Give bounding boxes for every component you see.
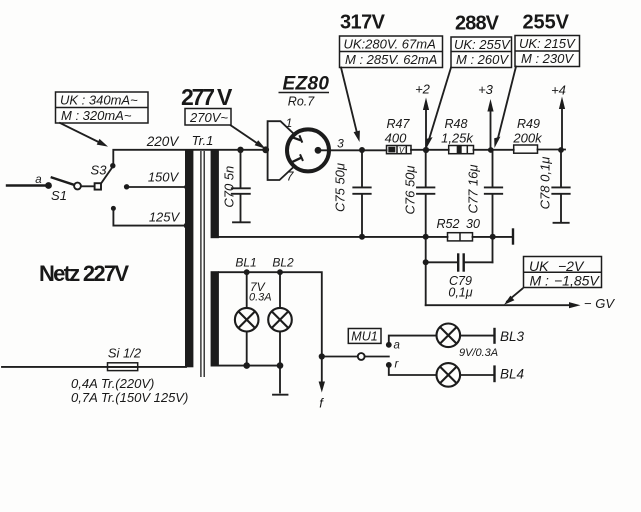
svg-text:M : 285V. 62mA: M : 285V. 62mA: [345, 52, 437, 67]
svg-text:C76 50μ: C76 50μ: [403, 165, 418, 214]
svg-text:R52: R52: [437, 217, 460, 231]
svg-text:−2V: −2V: [558, 258, 585, 274]
svg-text:Ro.7: Ro.7: [288, 95, 315, 109]
svg-text:270V~: 270V~: [189, 110, 228, 125]
svg-text:UK: 255V: UK: 255V: [454, 37, 511, 52]
svg-text:1,25k: 1,25k: [441, 131, 474, 146]
svg-text:M : 320mA~: M : 320mA~: [61, 108, 132, 123]
svg-text:− GV: − GV: [584, 296, 615, 311]
svg-text:+4: +4: [551, 83, 566, 98]
svg-text:Tr.1: Tr.1: [192, 133, 214, 148]
svg-text:255V: 255V: [523, 12, 570, 34]
svg-text:M :: M :: [530, 273, 550, 289]
svg-text:277: 277: [181, 84, 215, 110]
svg-text:220V: 220V: [146, 134, 181, 149]
svg-text:V: V: [399, 146, 405, 155]
svg-text:C78 0,1μ: C78 0,1μ: [538, 157, 553, 210]
svg-text:317V: 317V: [340, 12, 386, 34]
svg-text:R49: R49: [517, 117, 540, 131]
svg-text:a: a: [394, 340, 400, 352]
svg-text:UK: 215V: UK: 215V: [519, 36, 576, 51]
svg-text:400: 400: [385, 131, 407, 146]
svg-text:BL2: BL2: [272, 256, 294, 270]
svg-text:BL4: BL4: [500, 367, 524, 382]
svg-text:9V/0.3A: 9V/0.3A: [459, 347, 498, 359]
svg-text:BL3: BL3: [500, 329, 525, 344]
svg-text:BL1: BL1: [235, 256, 256, 270]
svg-text:C70 5n: C70 5n: [222, 166, 237, 208]
svg-text:UK:280V. 67mA: UK:280V. 67mA: [344, 36, 436, 51]
svg-text:R47: R47: [387, 117, 411, 131]
svg-text:125V: 125V: [149, 210, 181, 225]
svg-text:S1: S1: [51, 188, 67, 203]
svg-text:M : 230V: M : 230V: [521, 51, 574, 66]
svg-text:−1,85V: −1,85V: [554, 273, 600, 289]
svg-text:1: 1: [286, 116, 293, 130]
svg-text:C77 16μ: C77 16μ: [466, 164, 481, 213]
svg-text:MU1: MU1: [351, 330, 377, 344]
svg-text:200k: 200k: [512, 131, 543, 146]
svg-text:+2: +2: [415, 82, 431, 97]
svg-text:30: 30: [466, 217, 480, 231]
svg-text:UK: UK: [529, 258, 549, 274]
svg-text:Si 1/2: Si 1/2: [108, 346, 142, 361]
svg-text:0,4A Tr.(220V): 0,4A Tr.(220V): [71, 376, 154, 391]
svg-text:S3: S3: [91, 163, 108, 178]
svg-text:V: V: [217, 84, 233, 110]
svg-text:R48: R48: [445, 117, 468, 131]
svg-text:C75 50μ: C75 50μ: [333, 163, 348, 212]
svg-text:EZ80: EZ80: [283, 74, 330, 95]
svg-text:7: 7: [287, 170, 295, 184]
svg-text:UK : 340mA~: UK : 340mA~: [60, 92, 138, 107]
svg-text:Netz 227V: Netz 227V: [39, 261, 129, 286]
svg-text:a: a: [35, 174, 41, 186]
svg-text:0,7A Tr.(150V 125V): 0,7A Tr.(150V 125V): [71, 390, 188, 405]
svg-text:150V: 150V: [148, 170, 180, 185]
svg-text:288V: 288V: [455, 13, 500, 35]
svg-text:+3: +3: [478, 82, 494, 97]
svg-text:M : 260V: M : 260V: [456, 52, 509, 67]
svg-text:0.3A: 0.3A: [249, 292, 272, 304]
svg-text:3: 3: [337, 137, 344, 151]
svg-text:0,1μ: 0,1μ: [448, 286, 472, 300]
